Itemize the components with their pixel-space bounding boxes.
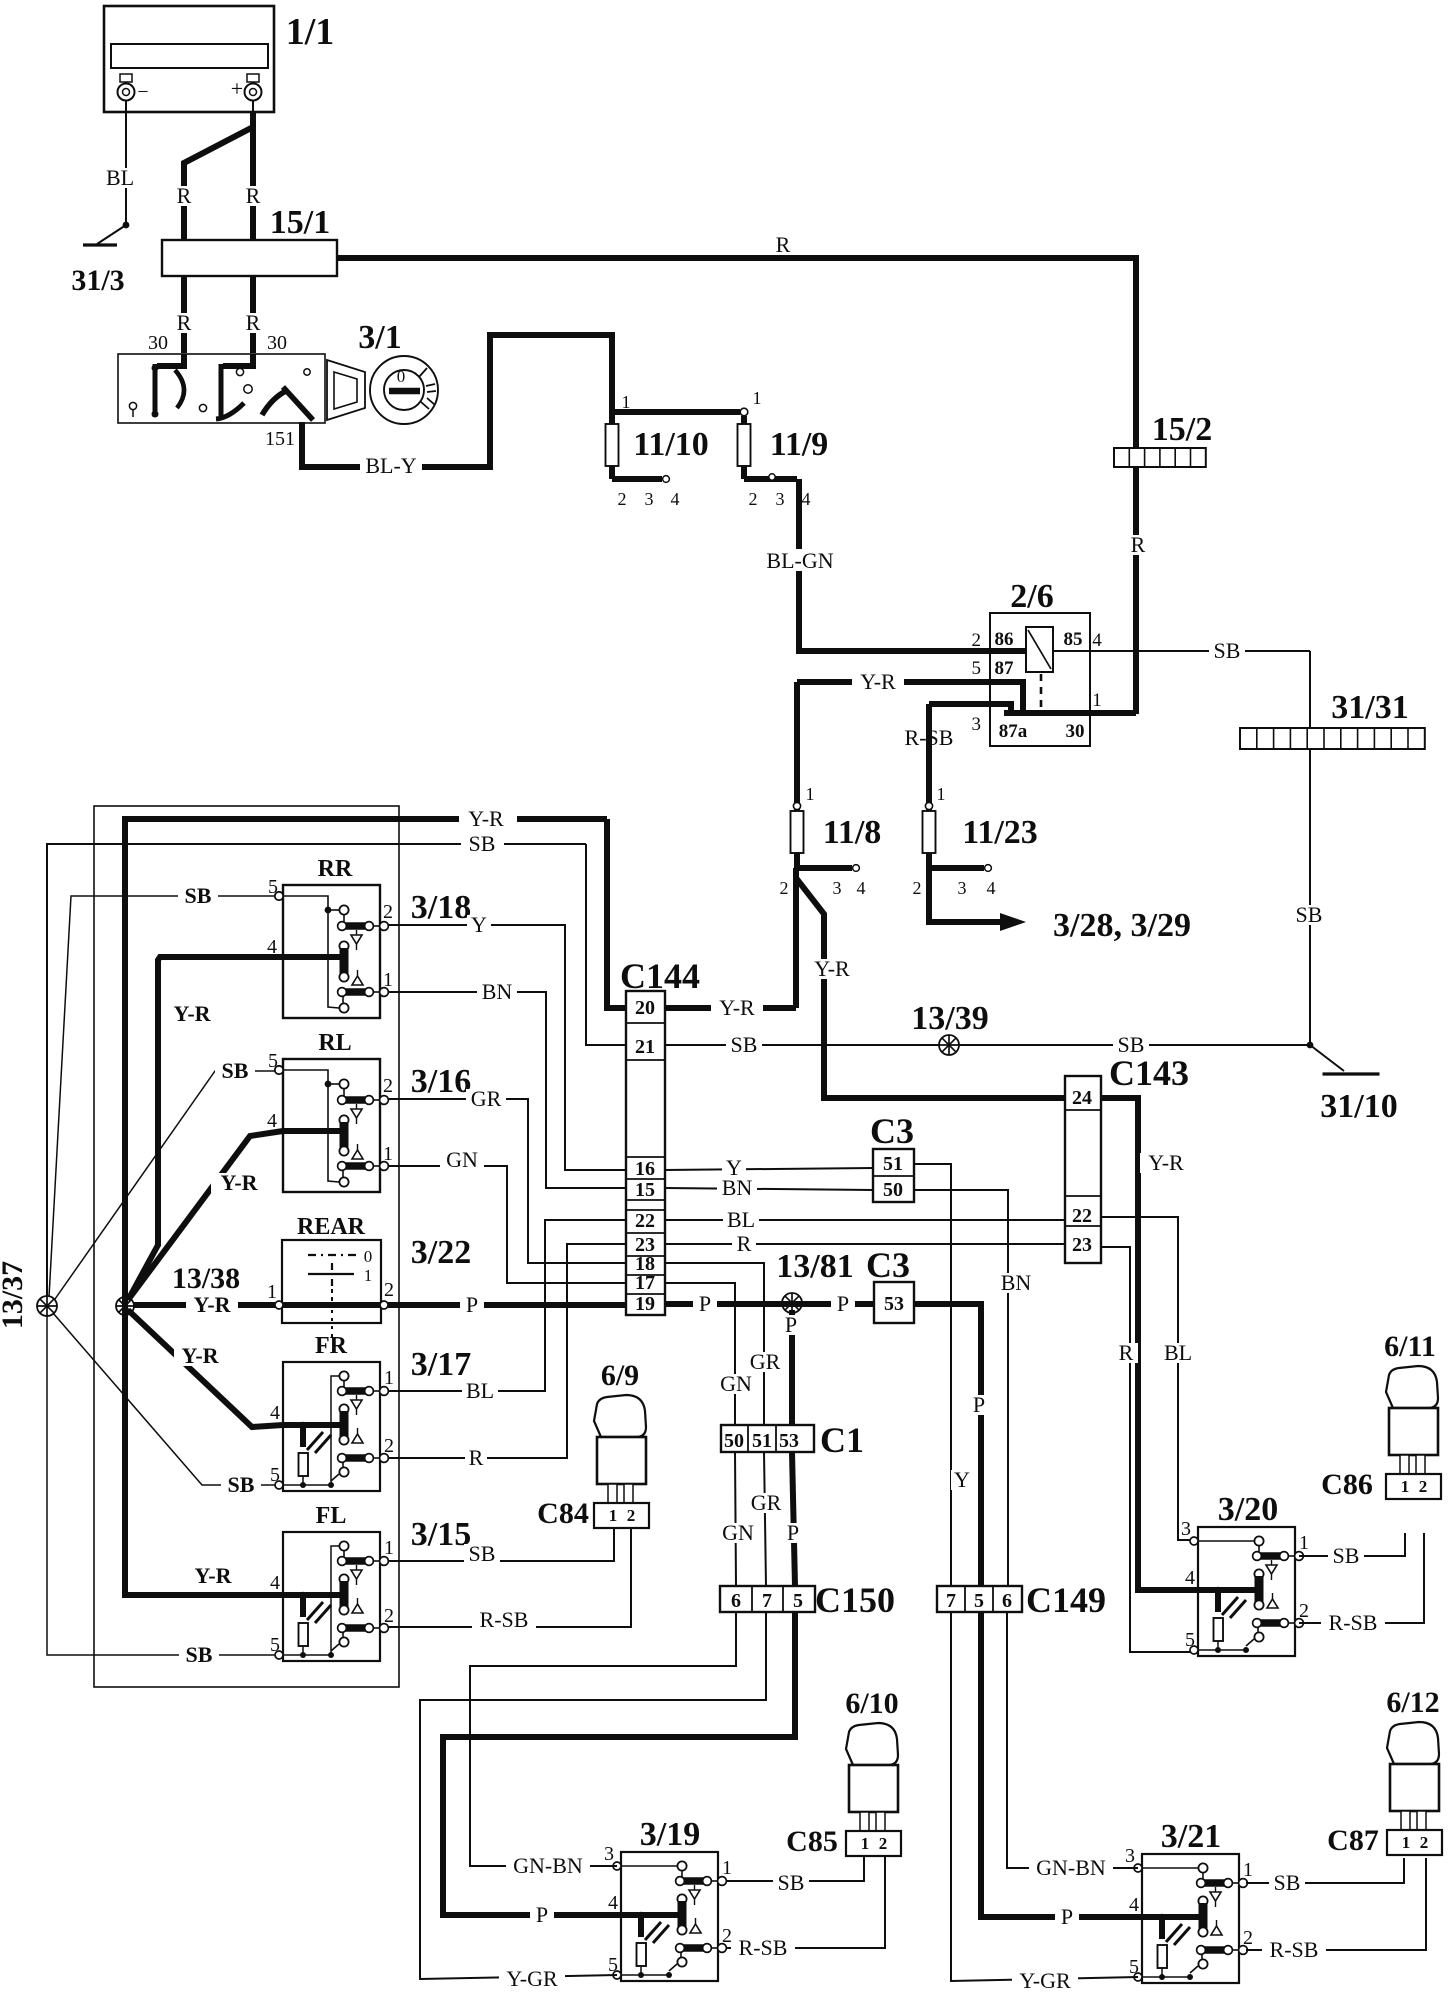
svg-text:21: 21 (635, 1036, 655, 1058)
svg-text:5: 5 (972, 658, 982, 679)
svg-text:7: 7 (762, 1590, 772, 1612)
wire GR C144 pin 18 to connector C1 pin 51 (665, 1263, 764, 1425)
svg-text:31/3: 31/3 (71, 264, 124, 297)
svg-text:SB: SB (778, 1870, 805, 1895)
SB ray 13/37 to switch FL pin 5 (47, 1316, 275, 1655)
svg-text:87a: 87a (999, 721, 1028, 742)
window motor 6/9 head (594, 1395, 646, 1437)
wire R fuse 15/1 to ignition switch 30 right (250, 276, 256, 353)
Y-R branch 13/38 to switch RL pin 4 (128, 1131, 283, 1300)
ignition switch terminal 30 right internal bar (223, 354, 253, 366)
svg-text:4: 4 (267, 1110, 277, 1132)
wire BN C144 pin 15 to C3 pin 50 (665, 1188, 873, 1190)
wire GN C1 pin 50 to C150 pin 6 (735, 1452, 736, 1586)
svg-text:3/18: 3/18 (411, 889, 471, 926)
switch 3/15 internal link (331, 1546, 339, 1655)
wire Y switch RR pin 2 to C144 pin 16 (388, 925, 626, 1170)
SB ray 13/37 to switch FR pin 5 (53, 1313, 275, 1485)
wire Y-R C144 pin 20 to fuse 11/8 (665, 1005, 796, 1011)
svg-text:50: 50 (883, 1179, 903, 1201)
switch 3/20 resistor branch (1215, 1590, 1221, 1612)
ignition key housing (327, 360, 365, 420)
wire R battery positive to fuse box 15/1 left (184, 112, 253, 240)
svg-text:3/22: 3/22 (411, 1234, 471, 1271)
svg-text:3/20: 3/20 (1218, 1491, 1278, 1528)
fuse 11/23 output pins 2 3 4 (926, 853, 932, 868)
svg-text:1: 1 (267, 1281, 277, 1303)
svg-text:Y-GR: Y-GR (1019, 1968, 1071, 1993)
fuse 11/9 output pins 2 3 4 (741, 466, 747, 479)
svg-text:C143: C143 (1109, 1053, 1189, 1093)
svg-text:87: 87 (995, 658, 1015, 679)
svg-text:3/16: 3/16 (411, 1063, 471, 1100)
wire R fuse 15/1 to ignition switch 30 left (181, 276, 187, 353)
svg-text:GN: GN (446, 1147, 478, 1172)
svg-text:3: 3 (645, 489, 654, 509)
svg-text:0: 0 (364, 1247, 373, 1266)
ignition switch lower hook contact (216, 403, 244, 419)
svg-text:Y-R: Y-R (1148, 1150, 1184, 1175)
svg-text:GR: GR (750, 1349, 781, 1374)
svg-text:30: 30 (267, 332, 287, 354)
wire R-SB relay 2/6 pin 87a branch (929, 704, 1011, 713)
svg-text:−: − (137, 81, 148, 103)
switch 3/15 up arrow (352, 1604, 363, 1613)
SB ray 13/37 to switch RL pin 5 (55, 1071, 275, 1299)
svg-text:Y-R: Y-R (814, 956, 850, 981)
switch 3/20 down arrow (1271, 1560, 1273, 1565)
switch 3/16 internal contact wiring (283, 1070, 339, 1182)
window motor 6/11 head (1386, 1366, 1438, 1408)
wire BL-Y ignition 151 to fuse 11/10 (302, 335, 612, 467)
svg-text:GR: GR (751, 1490, 782, 1515)
svg-text:SB: SB (731, 1032, 758, 1057)
svg-text:2: 2 (383, 1075, 393, 1097)
svg-text:P: P (787, 1520, 799, 1545)
svg-text:GN: GN (720, 1371, 752, 1396)
svg-text:P: P (1061, 1904, 1073, 1929)
wire Y C144 pin 16 to C3 pin 51 (665, 1168, 873, 1170)
wire SB switch 3/21 pin 1 to connector C87 pin 1 (1246, 1858, 1404, 1883)
wire R battery positive to fuse box 15/1 right (250, 112, 256, 240)
svg-text:4: 4 (987, 878, 996, 898)
svg-text:Y-R: Y-R (468, 806, 504, 831)
switch 3/21 resistor branch (1159, 1917, 1165, 1939)
Y-R bus 13/38 riser and top run to C144 pin 20 (125, 819, 459, 1306)
window motor 6/11 body (1389, 1408, 1438, 1455)
svg-text:Y-R: Y-R (194, 1563, 232, 1588)
svg-text:BL: BL (466, 1378, 494, 1403)
svg-text:4: 4 (267, 936, 277, 958)
wire GR C1 pin 51 to C150 pin 7 (764, 1452, 766, 1586)
ignition switch terminal 30 left internal bar (157, 354, 184, 366)
svg-text:BN: BN (1001, 1270, 1032, 1295)
svg-text:86: 86 (995, 629, 1014, 650)
wire BL-GN fuse 11/9 to relay 2/6 pin 86 (799, 479, 1026, 651)
svg-text:R-SB: R-SB (1329, 1610, 1378, 1635)
switch 3/21 upper movable contact (1198, 1863, 1207, 1872)
wire BN C3 pin 50 to connector C149 pin 6 (914, 1190, 1008, 1586)
svg-text:1: 1 (753, 388, 762, 408)
switch 3/19 upper movable contact (677, 1861, 686, 1870)
svg-text:BN: BN (722, 1175, 753, 1200)
switch 3/19 lower movable contact (680, 1952, 682, 1958)
svg-text:R: R (776, 232, 791, 257)
switch 3/19 down arrow (694, 1885, 696, 1890)
svg-text:2: 2 (1420, 1833, 1429, 1852)
svg-text:2: 2 (618, 489, 627, 509)
window motor 6/12 connector stubs (1401, 1811, 1410, 1830)
window motor 6/9 connector stubs (608, 1484, 617, 1503)
wire P rear switch 3/22 pin 2 to C144 pin 19 (388, 1302, 626, 1308)
Y-R branch 13/38 to rear switch 3/22 pin 1 (134, 1302, 275, 1308)
svg-text:6: 6 (731, 1590, 741, 1612)
svg-text:4: 4 (671, 489, 680, 509)
svg-text:7: 7 (946, 1590, 956, 1612)
svg-text:1/1: 1/1 (286, 11, 335, 53)
svg-text:R-SB: R-SB (480, 1607, 529, 1632)
wire BN switch RR pin 1 to C144 pin 15 (388, 992, 626, 1188)
svg-text:GN-BN: GN-BN (1036, 1855, 1106, 1880)
switch 3/17 up arrow (352, 1434, 363, 1443)
wire BL C144 pin 22 to C143 pin 22 (665, 1219, 1065, 1221)
svg-text:Y: Y (471, 912, 487, 937)
switch 3/15 down arrow (356, 1565, 358, 1570)
svg-text:1: 1 (806, 784, 815, 804)
relay 2/6 switch bar pin 87a to 30 (1004, 710, 1136, 716)
switch 3/17 resistor branch (300, 1425, 306, 1447)
svg-text:BN: BN (482, 979, 513, 1004)
svg-text:GR: GR (471, 1086, 502, 1111)
svg-text:24: 24 (1072, 1087, 1092, 1109)
switch 3/19 resistor branch (638, 1915, 644, 1937)
svg-text:3/1: 3/1 (358, 319, 401, 356)
svg-text:15/2: 15/2 (1152, 411, 1212, 448)
svg-text:P: P (837, 1291, 849, 1316)
svg-text:BL-Y: BL-Y (365, 453, 416, 478)
switch 3/15 upper movable contact (339, 1541, 348, 1550)
svg-text:2: 2 (879, 1834, 888, 1853)
svg-text:R: R (177, 310, 192, 335)
battery positive terminal (252, 74, 254, 112)
svg-text:C3: C3 (870, 1111, 914, 1151)
svg-text:2: 2 (384, 1279, 394, 1301)
wire R-SB switch 3/21 pin 2 to connector C87 pin 2 (1246, 1858, 1426, 1950)
svg-text:3: 3 (604, 1843, 614, 1865)
switch 3/21 down arrow (1215, 1887, 1217, 1892)
wire GR switch RL pin 2 to C144 pin 18 (388, 1099, 626, 1263)
svg-text:3/17: 3/17 (411, 1346, 471, 1383)
svg-text:6: 6 (1002, 1590, 1012, 1612)
switch 3/18 upper movable contact (339, 905, 348, 914)
switch 3/15 rocker bar (339, 1574, 348, 1583)
svg-text:19: 19 (635, 1293, 655, 1315)
svg-text:FR: FR (315, 1333, 348, 1359)
svg-text:22: 22 (635, 1210, 655, 1232)
svg-text:RR: RR (318, 856, 353, 882)
wire Y C3 pin 51 to connector C149 pin 7 (914, 1164, 951, 1586)
wire R C144 pin 23 to C143 pin 23 (665, 1243, 1065, 1245)
svg-text:C86: C86 (1321, 1468, 1373, 1501)
svg-text:C3: C3 (866, 1245, 910, 1285)
window switch 3/20 3/20 box (1198, 1527, 1295, 1656)
svg-text:22: 22 (1072, 1205, 1092, 1227)
svg-text:4: 4 (802, 489, 811, 509)
wire SB relay 2/6 pin 85 to ground strip 31/31 (1053, 650, 1310, 652)
svg-text:5: 5 (793, 1590, 803, 1612)
wire SB switch 3/19 pin 1 to connector C85 pin 1 (726, 1857, 864, 1881)
svg-text:SB: SB (228, 1472, 255, 1497)
svg-text:2/6: 2/6 (1010, 578, 1053, 615)
svg-text:23: 23 (1072, 1234, 1092, 1256)
wire GN-BN C149 pin 6 to switch 3/21 pin 3 (1007, 1612, 1138, 1868)
svg-text:SB: SB (1274, 1870, 1301, 1895)
switch 3/17 down arrow (356, 1395, 358, 1400)
svg-text:C149: C149 (1026, 1580, 1106, 1620)
svg-text:20: 20 (635, 997, 655, 1019)
switch 3/20 rocker bar (1254, 1569, 1263, 1578)
wire R-SB switch 3/19 pin 2 to connector C85 pin 2 (726, 1857, 885, 1948)
svg-text:SB: SB (1333, 1543, 1360, 1568)
ignition switch left contact arc (175, 370, 184, 408)
svg-text:4: 4 (270, 1572, 280, 1594)
wire SB switch FL pin 1 to connector C84 pin 1 (388, 1524, 614, 1561)
svg-text:1: 1 (861, 1834, 870, 1853)
svg-text:1: 1 (1092, 690, 1102, 711)
svg-text:C150: C150 (815, 1580, 895, 1620)
wire R-SB switch FL pin 2 to connector C84 pin 2 (388, 1524, 631, 1627)
switch 3/16 up arrow (352, 1150, 363, 1159)
svg-text:3: 3 (833, 878, 842, 898)
svg-text:50: 50 (724, 1430, 744, 1452)
switch 3/18 down arrow (356, 930, 358, 935)
window motor 6/11 connector stubs (1400, 1455, 1409, 1474)
SB bus drop to C144 pin 21 (586, 844, 626, 1045)
wire GN C144 pin 17 to connector C1 pin 50 (665, 1283, 735, 1425)
switch 3/15 resistor branch (300, 1595, 306, 1617)
svg-text:Y-R: Y-R (193, 1292, 231, 1317)
SB bus 13/37 riser and top run (47, 844, 461, 1296)
feed hub 13/38 node (116, 1297, 134, 1315)
window motor 6/10 head (846, 1723, 898, 1765)
svg-text:Y-R: Y-R (719, 995, 755, 1020)
switch 3/19 rocker bar (677, 1894, 686, 1903)
svg-text:SB: SB (186, 1642, 213, 1667)
svg-text:SB: SB (1214, 638, 1241, 663)
svg-text:R: R (1131, 532, 1146, 557)
svg-text:4: 4 (1129, 1894, 1139, 1916)
svg-text:13/81: 13/81 (776, 1248, 853, 1285)
svg-text:1: 1 (384, 1537, 394, 1559)
svg-text:1: 1 (609, 1506, 618, 1525)
svg-text:3: 3 (958, 878, 967, 898)
svg-text:Y-R: Y-R (860, 669, 896, 694)
fuse 11/8 output pins 2 3 4 (794, 853, 800, 868)
svg-text:C85: C85 (786, 1825, 838, 1858)
svg-text:3/19: 3/19 (640, 1816, 700, 1853)
svg-text:51: 51 (883, 1153, 903, 1175)
wire BL battery negative to ground 31/3 (125, 101, 127, 225)
svg-text:1: 1 (1401, 1477, 1410, 1496)
svg-text:11/23: 11/23 (962, 814, 1038, 851)
svg-text:RL: RL (318, 1030, 351, 1056)
wire Y-R fuse 11/8 to C143 pin 24 (796, 868, 1065, 1098)
svg-text:2: 2 (749, 489, 758, 509)
wire P C149 pin 5 to switch 3/21 pin 4 (981, 1612, 1142, 1917)
switch 3/22 actuator dashes (331, 1289, 333, 1302)
switch 3/17 rocker bar (339, 1404, 348, 1413)
window motor 6/9 body (597, 1437, 646, 1484)
svg-text:13/37: 13/37 (0, 1261, 29, 1329)
wire SB C144 pin 21 to ground 31/10 (665, 1044, 1310, 1046)
ignition switch key contact wiper (262, 391, 286, 415)
svg-text:2: 2 (780, 878, 789, 898)
wire fuse 11/10 pin 1 to fuse 11/9 pin 1 (609, 412, 615, 424)
svg-text:GN-BN: GN-BN (513, 1853, 583, 1878)
ground hub 13/37 node (37, 1296, 57, 1316)
switch 3/17 internal link (331, 1376, 339, 1485)
window switch 3/19 3/19 box (621, 1852, 718, 1981)
wire BL C143 pin 22 to switch 3/20 pin 3 (1101, 1217, 1198, 1540)
wire GN-BN C150 pin 6 to switch 3/19 pin 3 (470, 1612, 736, 1866)
switch 3/20 upper movable contact (1254, 1536, 1263, 1545)
svg-text:3: 3 (1125, 1845, 1135, 1867)
svg-text:3/15: 3/15 (411, 1516, 471, 1553)
Y-R branch 13/38 to switch FR pin 4 (128, 1310, 283, 1427)
wire BL switch FR pin 1 to C144 pin 22 (388, 1220, 626, 1391)
svg-text:6/10: 6/10 (845, 1687, 898, 1720)
svg-text:P: P (785, 1312, 797, 1337)
switch 3/22 position 1 mark (308, 1273, 354, 1275)
svg-text:3: 3 (1181, 1518, 1191, 1540)
svg-text:Y: Y (954, 1467, 970, 1492)
wire P C1 pin 53 down to C150 pin 5 (792, 1452, 795, 1586)
svg-text:1: 1 (722, 1857, 732, 1879)
Y-R branch 13/38 down to switch FL pin 4 (125, 1306, 283, 1595)
window motor 6/10 body (849, 1765, 898, 1812)
switch 3/16 lower movable contact (342, 1170, 344, 1178)
svg-text:SB: SB (222, 1058, 249, 1083)
switch 3/18 internal contact wiring (283, 896, 339, 1008)
svg-text:3/21: 3/21 (1161, 1818, 1221, 1855)
relay 2/6 coil dashed actuator (1040, 674, 1043, 712)
wire P C144 pin 19 to 13/81 to C3 pin 53 (665, 1301, 874, 1307)
switch 3/16 upper movable contact (339, 1079, 348, 1088)
svg-text:Y-R: Y-R (220, 1170, 258, 1195)
svg-text:1: 1 (364, 1266, 373, 1285)
svg-text:P: P (699, 1291, 711, 1316)
wire Y-GR C150 pin 7 to switch 3/19 pin 5 (420, 1612, 766, 1979)
ground 31/10 (1307, 1042, 1314, 1049)
svg-text:1: 1 (1402, 1833, 1411, 1852)
svg-text:1: 1 (1299, 1532, 1309, 1554)
svg-text:SB: SB (469, 1541, 496, 1566)
svg-text:P: P (536, 1902, 548, 1927)
svg-text:85: 85 (1064, 629, 1083, 650)
svg-text:BL: BL (727, 1207, 755, 1232)
svg-text:13/38: 13/38 (172, 1262, 240, 1295)
svg-text:SB: SB (185, 883, 212, 908)
svg-text:3: 3 (776, 489, 785, 509)
switch 3/18 lower movable contact (342, 996, 344, 1004)
svg-text:2: 2 (972, 630, 982, 651)
ignition switch contact points (129, 402, 136, 409)
svg-text:15: 15 (635, 1179, 655, 1201)
switch 3/20 up arrow (1267, 1599, 1278, 1608)
svg-text:11/10: 11/10 (633, 426, 709, 463)
svg-text:BL-GN: BL-GN (766, 548, 833, 573)
svg-text:Y-R: Y-R (173, 1001, 211, 1026)
svg-text:3/28, 3/29: 3/28, 3/29 (1053, 907, 1191, 944)
wire Y-R fuse 11/8 down to C144 pin 20 (793, 868, 799, 1008)
switch 3/22 internal through wire (282, 1302, 381, 1308)
ground 31/3 (97, 225, 126, 244)
svg-text:P: P (466, 1292, 478, 1317)
svg-text:4: 4 (1185, 1567, 1195, 1589)
wire R switch FR pin 2 to C144 pin 23 (388, 1244, 626, 1458)
svg-text:31/10: 31/10 (1320, 1088, 1397, 1125)
svg-text:5: 5 (974, 1590, 984, 1612)
svg-text:30: 30 (1066, 721, 1085, 742)
wire P C3 pin 53 to connector C149 pin 5 (914, 1304, 981, 1586)
switch 3/22 position 0 mark (308, 1254, 360, 1256)
wire SB 31/31 down to ground 31/10 (1309, 749, 1311, 1045)
svg-text:31/31: 31/31 (1331, 689, 1408, 726)
window motor 6/12 body (1390, 1764, 1439, 1811)
svg-text:15/1: 15/1 (270, 204, 330, 241)
svg-text:13/39: 13/39 (911, 1000, 988, 1037)
svg-text:0: 0 (397, 367, 406, 386)
svg-text:R-SB: R-SB (739, 1935, 788, 1960)
battery negative terminal (125, 74, 127, 112)
window switch 3/21 3/21 box (1142, 1854, 1239, 1983)
svg-text:6/11: 6/11 (1384, 1330, 1436, 1363)
svg-text:4: 4 (608, 1892, 618, 1914)
switch 3/20 lower movable contact (1257, 1627, 1259, 1633)
svg-text:R: R (177, 183, 192, 208)
wire R fuse 15/1 to connector 15/2 and relay 2/6 pin 30 (337, 258, 1136, 714)
svg-text:3: 3 (972, 714, 982, 735)
svg-text:1: 1 (1243, 1859, 1253, 1881)
switch 3/16 down arrow (356, 1104, 358, 1109)
svg-text:Y-R: Y-R (181, 1343, 219, 1368)
door switch group frame (94, 806, 399, 1687)
svg-text:17: 17 (635, 1272, 655, 1294)
wire R-SB switch 3/20 pin 2 to connector C86 pin 2 (1299, 1533, 1424, 1623)
svg-text:R: R (246, 183, 261, 208)
svg-text:1: 1 (384, 1367, 394, 1389)
svg-text:1: 1 (937, 784, 946, 804)
svg-text:+: + (231, 76, 243, 101)
relay 2/6 coil (1026, 627, 1053, 672)
svg-text:R: R (737, 1231, 752, 1256)
switch 3/18 up arrow (352, 976, 363, 985)
svg-text:Y-GR: Y-GR (506, 1966, 558, 1991)
svg-text:2: 2 (1419, 1477, 1428, 1496)
wire GN switch RL pin 1 to C144 pin 17 (388, 1166, 626, 1283)
svg-text:2: 2 (627, 1506, 636, 1525)
svg-text:6/9: 6/9 (601, 1359, 639, 1392)
wire to 3/28 3/29 with arrow (929, 868, 1002, 922)
svg-text:51: 51 (752, 1430, 772, 1452)
svg-text:11/9: 11/9 (770, 426, 829, 463)
svg-text:R: R (246, 310, 261, 335)
svg-text:2: 2 (913, 878, 922, 898)
svg-text:C84: C84 (537, 1497, 589, 1530)
switch 3/17 upper movable contact (339, 1371, 348, 1380)
switch 3/18 rocker bar (339, 941, 348, 950)
svg-text:SB: SB (1296, 902, 1323, 927)
